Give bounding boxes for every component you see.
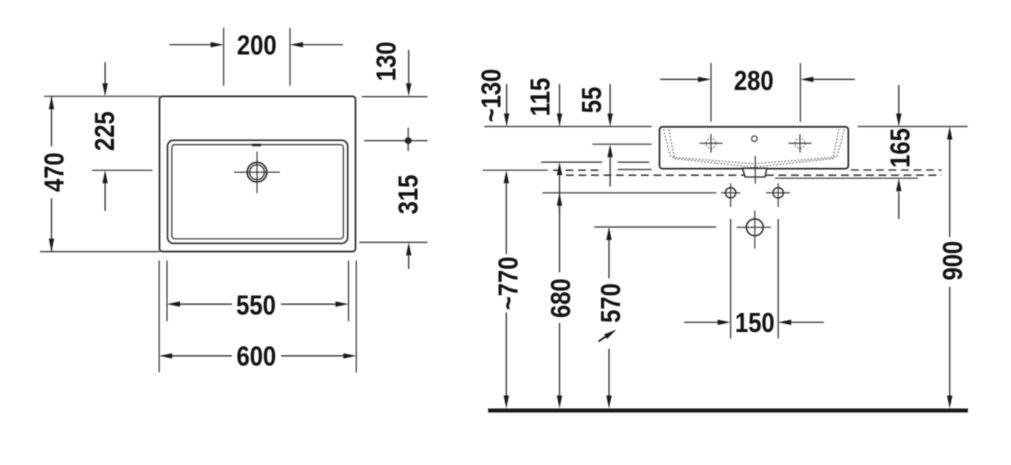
floor line: [488, 409, 968, 413]
tap hole right (dotted circle): [795, 138, 805, 148]
dim 115 bottom arrow: [557, 162, 562, 175]
dim 900: [947, 127, 952, 140]
dim 600 line: [172, 355, 232, 357]
dim 570 top arrow: [606, 227, 611, 240]
drain center line: [754, 156, 756, 184]
dim 165 top arrow: [898, 85, 900, 114]
washbasin outer rect: [160, 96, 356, 251]
dim 550 extension lines: [166, 261, 168, 322]
top edge extension right: [362, 96, 428, 98]
dim 150 extension lines: [730, 219, 732, 339]
dim 600 extension lines: [158, 261, 160, 373]
dim 550 line: [180, 303, 232, 305]
svg-text:130: 130: [370, 42, 402, 82]
svg-text:570: 570: [594, 283, 626, 323]
svg-text:200: 200: [237, 29, 277, 61]
dim 315 arrow: [408, 255, 410, 269]
countertop line A: solid seg near basin: [618, 169, 652, 171]
rim level line right: [858, 126, 968, 128]
hole level line right: [364, 140, 428, 142]
dim 225 hole line: [92, 169, 153, 171]
dim 55 bottom arrow: [607, 144, 612, 157]
basin rear level line right: [359, 241, 427, 243]
adjustability arrow: [599, 336, 607, 342]
overflow tick: [252, 144, 261, 146]
svg-text:165: 165: [884, 128, 916, 168]
drain outlet: [742, 168, 766, 177]
svg-text:600: 600: [236, 340, 276, 372]
dim 150 arrows: [684, 321, 718, 323]
svg-text:150: 150: [735, 306, 775, 338]
countertop line A: dashes right: [851, 169, 942, 171]
basin body: [660, 127, 849, 169]
dim 55 ref line: [592, 143, 651, 145]
siphon circle: [746, 219, 763, 236]
dim 165 ref line: [775, 177, 918, 179]
faucet hole inner circle: [250, 165, 265, 180]
countertop line A: dashes: [553, 169, 603, 171]
dim 680 top arrow: [557, 193, 562, 206]
bottom edge extension left: [40, 251, 160, 253]
svg-text:115: 115: [524, 78, 556, 116]
countertop line A: solid seg left: [483, 169, 548, 171]
fixing bolt right: [773, 188, 783, 198]
dim 115 top arrow: [559, 84, 561, 114]
tap hole left (dotted circle): [706, 138, 716, 148]
chain dot: [405, 137, 412, 144]
svg-text:470: 470: [38, 152, 70, 192]
basin bowl dotted inner line: [669, 130, 839, 168]
dim 470 line: [51, 96, 53, 146]
dim 130 arrow: [408, 50, 410, 83]
dim 280 extension lines: [710, 63, 712, 122]
basin inner rim: [168, 140, 348, 243]
dim 200 extension lines: [223, 28, 225, 86]
countertop dashed line B: [566, 174, 942, 176]
dim 165 bottom arrow: [896, 178, 901, 191]
dim 570 shaft lower: [608, 349, 610, 396]
svg-text:55: 55: [575, 87, 607, 113]
dim ~130 top arrow: [506, 84, 508, 114]
dim ~770 shaft lower: [505, 313, 507, 396]
dim 55 top arrow: [609, 84, 611, 114]
top edge extension left: [44, 95, 160, 97]
dim ~130 bottom / ~770 top arrow: [504, 170, 509, 183]
rim level line left: [484, 126, 652, 128]
dim 115 ref line: [541, 161, 602, 163]
basin bowl dotted outline: [664, 130, 845, 164]
faucet hole outer circle: [247, 162, 267, 182]
fixing bolt left: [725, 188, 735, 198]
svg-text:550: 550: [236, 289, 276, 321]
svg-text:680: 680: [544, 278, 576, 318]
svg-text:225: 225: [88, 111, 120, 151]
dot tick: [407, 128, 409, 151]
dim 200 arrows: [169, 44, 211, 46]
dim 280 arrows: [660, 78, 698, 80]
svg-text:315: 315: [392, 175, 424, 215]
dim 680 ref line / bolt level: [542, 192, 716, 194]
svg-text:900: 900: [936, 241, 968, 281]
overflow circle: [752, 136, 758, 142]
svg-text:280: 280: [734, 64, 774, 96]
svg-text:~770: ~770: [492, 257, 524, 311]
dim 570 ref line: [594, 226, 716, 228]
svg-text:~130: ~130: [475, 69, 507, 123]
dim 225 arrows: [104, 62, 106, 83]
bolt crosshair segs: [721, 192, 740, 194]
basin inner bottom line: [172, 145, 344, 239]
faucet crosshair: [256, 152, 258, 194]
dim 680 shaft lower: [559, 323, 561, 396]
